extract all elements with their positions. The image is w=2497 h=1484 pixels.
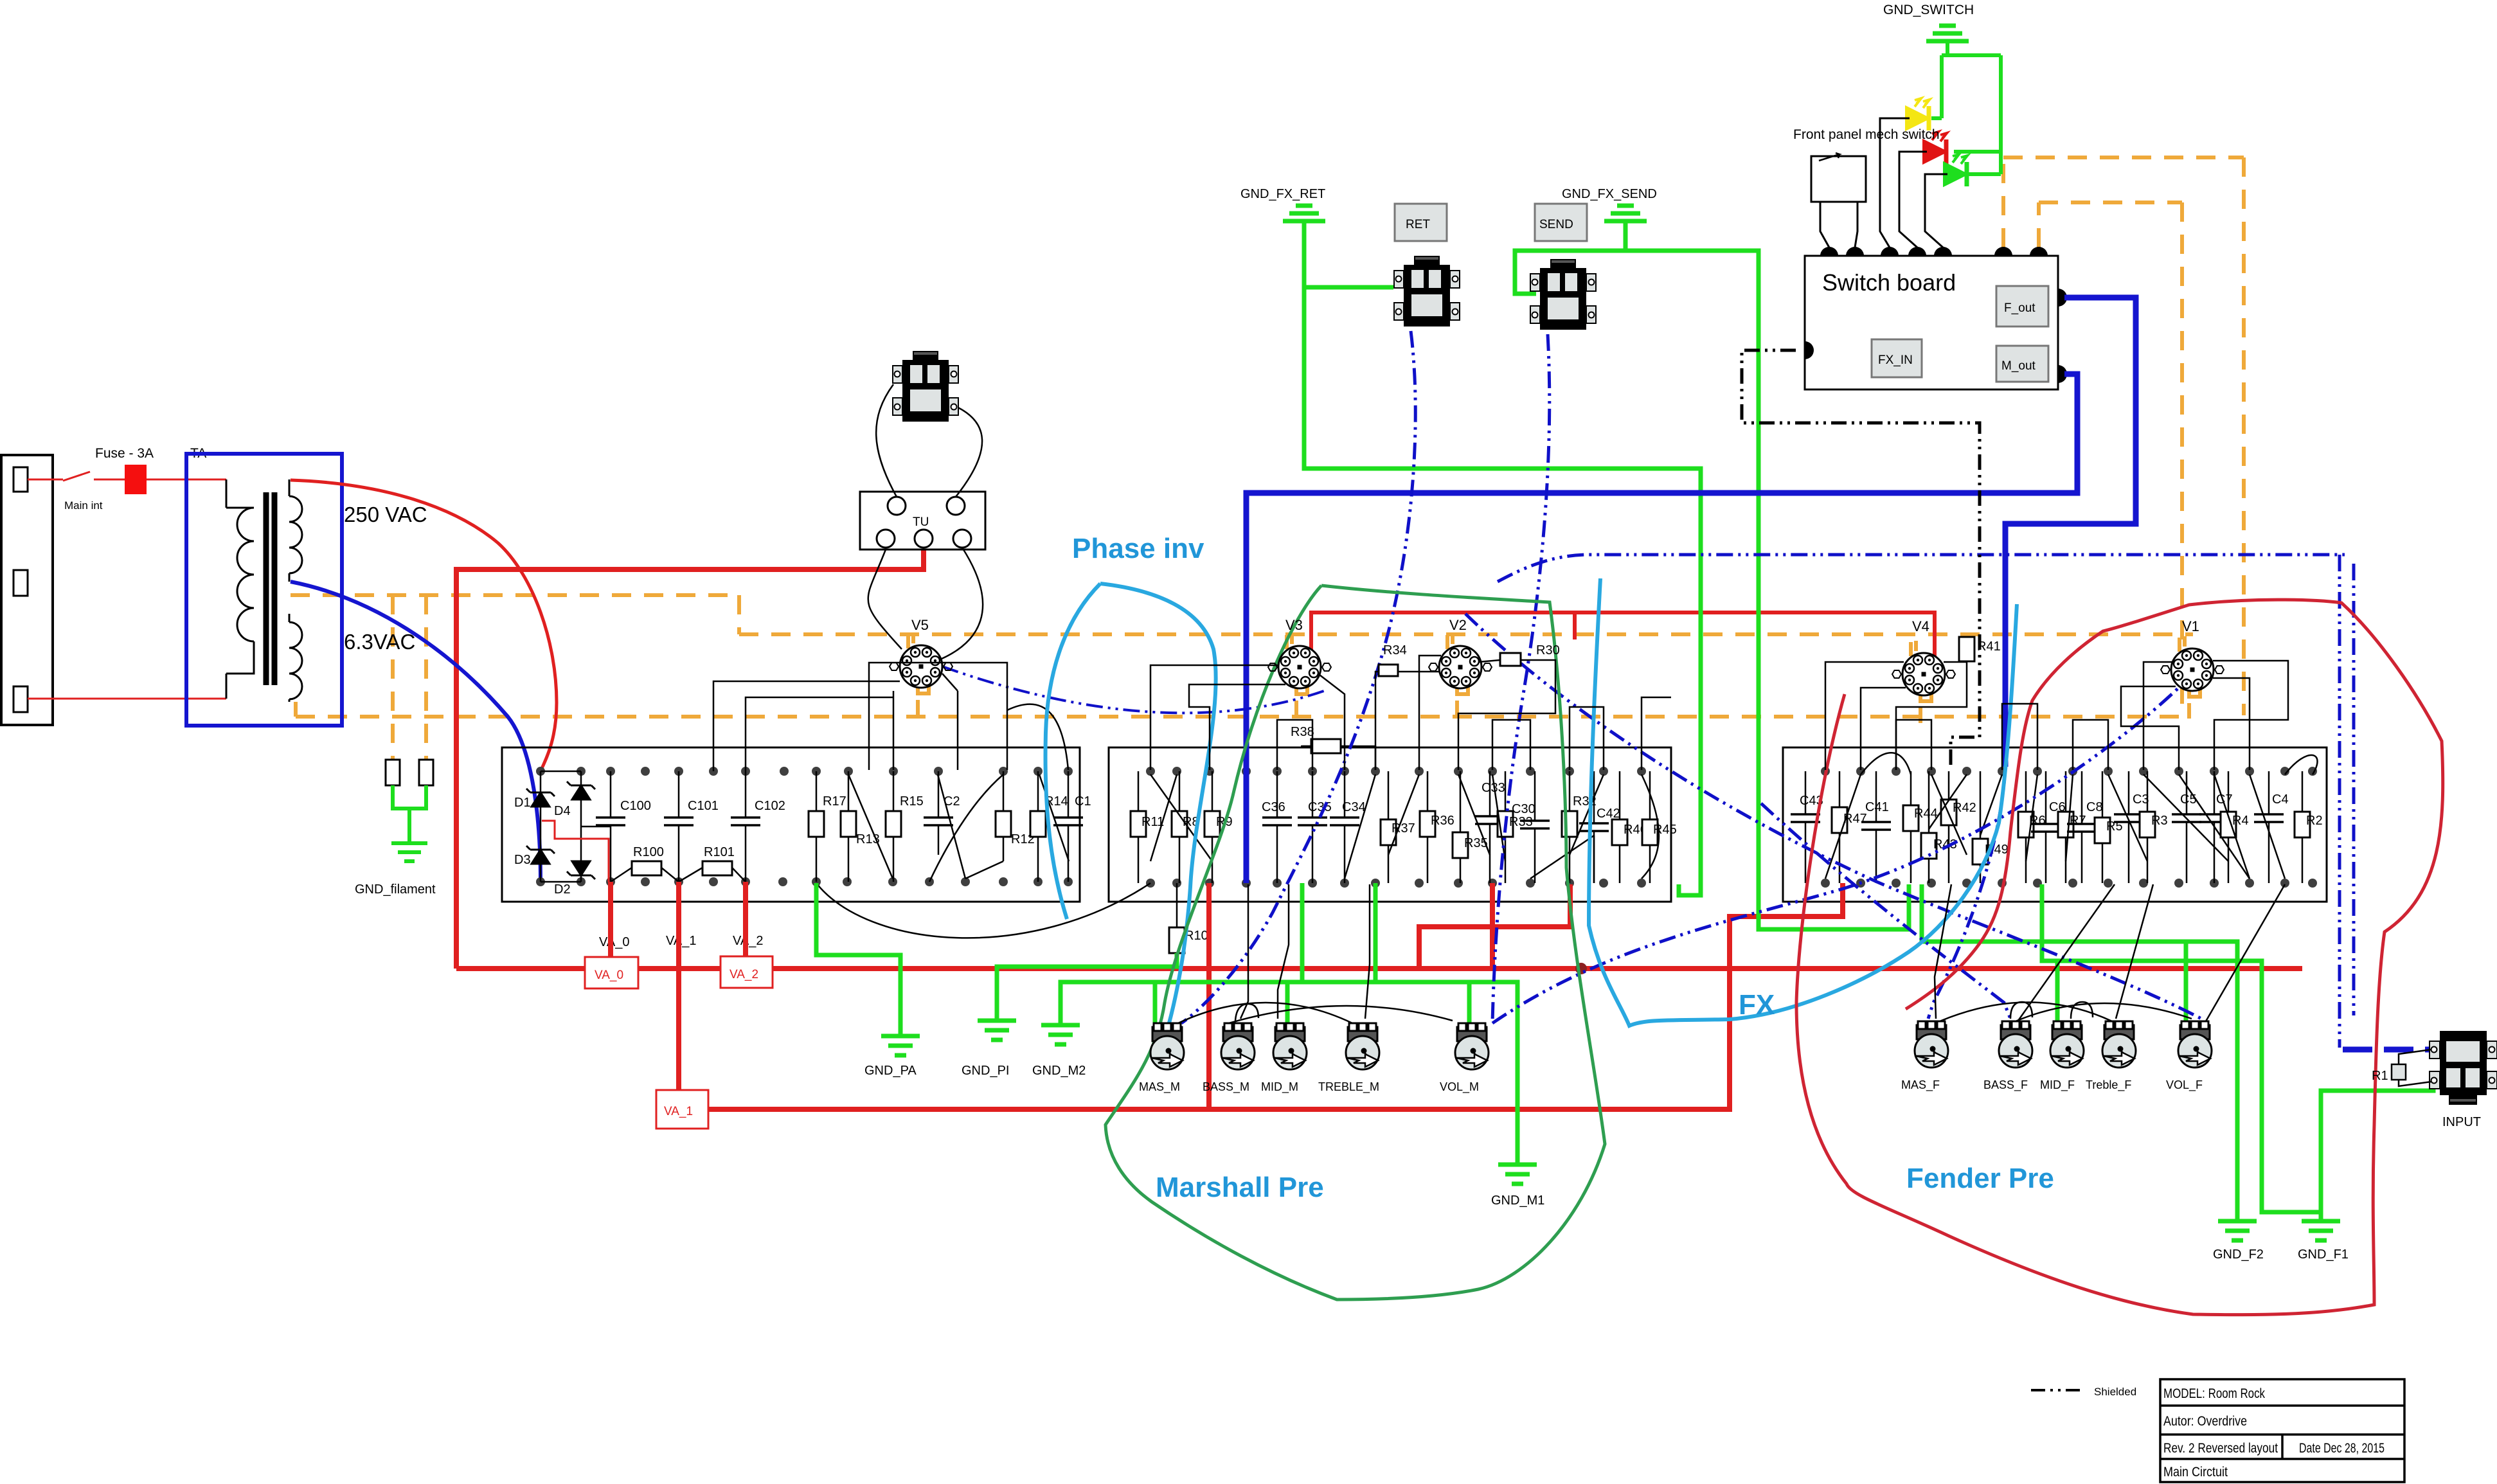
capacitor C3: [2128, 771, 2130, 883]
svg-text:RET: RET: [1406, 218, 1430, 231]
potentiometer BASS_M: [1221, 1023, 1255, 1069]
turret board 2 (Marshall pre): [1109, 747, 1671, 902]
tube V2: [1429, 646, 1492, 688]
IEC mains inlet connector: [1, 455, 53, 725]
svg-text:MID_M: MID_M: [1261, 1080, 1298, 1094]
shielded wire VOL_M to V1: [1492, 672, 2192, 1023]
jack speaker out: [893, 351, 958, 422]
svg-text:R1: R1: [2372, 1069, 2388, 1083]
wire V2 loom + R34: [1375, 656, 1555, 770]
diode D1: [526, 789, 555, 807]
wire TU to speaker jack: [876, 384, 983, 659]
svg-text:GND_F2: GND_F2: [2213, 1247, 2264, 1262]
wire V5 loom: [868, 550, 1007, 770]
fuse holders on heater line: [386, 760, 433, 785]
svg-text:MAS_M: MAS_M: [1139, 1080, 1180, 1094]
wire pot link arcs Marshall: [1178, 884, 1453, 1023]
wire board2 diagonal links: [1150, 774, 1659, 883]
svg-text:C5: C5: [2180, 792, 2197, 807]
svg-text:D4: D4: [554, 804, 571, 818]
svg-text:Shielded: Shielded: [2094, 1386, 2136, 1398]
front panel mech switch: [1811, 153, 1866, 247]
svg-text:C101: C101: [688, 799, 719, 813]
wire bridge rectifier links: [541, 771, 611, 882]
region outline Phase inv (cyan): [1046, 584, 1216, 1048]
svg-text:R45: R45: [1653, 823, 1677, 837]
wire blue input jack link: [2343, 1047, 2434, 1053]
ground GND_filament: [391, 785, 427, 861]
svg-text:R101: R101: [704, 845, 735, 859]
wire 6.3VAC blue to board: [291, 582, 541, 881]
switch board pads: [1805, 247, 2067, 383]
svg-text:C100: C100: [620, 799, 651, 813]
svg-text:Date Dec 28, 2015: Date Dec 28, 2015: [2299, 1441, 2385, 1456]
wire blue M_out: [1246, 374, 2077, 883]
svg-text:R42: R42: [1953, 801, 1976, 815]
svg-text:R4: R4: [2232, 814, 2249, 828]
capacitor C101: [678, 771, 680, 882]
turret board 1 (PSU / PA): [502, 747, 1080, 902]
wire V3 loom: [1150, 665, 1345, 770]
resistor R34: [1379, 665, 1398, 676]
turret board 3 (Fender pre): [1783, 747, 2327, 902]
resistor R9: [1212, 771, 1213, 883]
resistor R46: [1619, 771, 1621, 883]
tube V3: [1268, 646, 1331, 688]
wire green FX send shield: [1515, 221, 1909, 929]
svg-text:R33: R33: [1509, 815, 1533, 829]
svg-text:R37: R37: [1392, 821, 1415, 836]
tube V4: [1892, 653, 1955, 695]
wire green FX return shield: [1304, 238, 1701, 895]
svg-text:VA_0: VA_0: [599, 935, 629, 949]
svg-text:R38: R38: [1291, 725, 1314, 739]
ground GND_FX_RET: [1302, 221, 1307, 287]
resistor R7: [2065, 771, 2067, 883]
svg-text:6.3VAC: 6.3VAC: [344, 630, 415, 654]
resistor R2: [2302, 771, 2304, 883]
wire red rectifier jumper: [542, 821, 609, 882]
region outline Fender Pre (red): [1796, 600, 2443, 1314]
svg-text:INPUT: INPUT: [2442, 1115, 2481, 1129]
potentiometer Treble_F: [2102, 1021, 2136, 1068]
svg-text:C3: C3: [2133, 792, 2149, 807]
ground GND_M2: [1041, 1025, 1080, 1044]
ground GND_PA: [881, 1036, 920, 1055]
svg-text:Treble_F: Treble_F: [2086, 1078, 2131, 1092]
svg-text:M_out: M_out: [2001, 359, 2036, 373]
resistor R30: [1500, 653, 1521, 666]
resistor R32: [1569, 771, 1571, 883]
potentiometer MID_M: [1273, 1023, 1307, 1069]
svg-text:TREBLE_M: TREBLE_M: [1318, 1080, 1379, 1094]
resistor R14: [1037, 771, 1039, 882]
resistor R101: [679, 868, 746, 882]
jack RET jack: [1394, 256, 1460, 326]
resistor R13: [848, 771, 850, 882]
resistor R35: [1460, 771, 1462, 883]
potentiometer VOL_M: [1455, 1023, 1489, 1069]
svg-text:C35: C35: [1308, 800, 1332, 814]
capacitor C102: [745, 771, 747, 882]
capacitor C42: [1593, 771, 1595, 883]
resistor R42: [1948, 771, 1950, 883]
resistor R33: [1505, 771, 1507, 883]
ground GND_F1: [2302, 1221, 2340, 1240]
wire green input jack ground: [2321, 1081, 2433, 1212]
svg-text:V4: V4: [1912, 618, 1929, 634]
wire green GND_PI from R10: [997, 953, 1177, 1021]
svg-text:MAS_F: MAS_F: [1901, 1078, 1940, 1092]
wire mains live (red) with Main int switch: [28, 472, 226, 699]
resistor R15: [893, 771, 895, 882]
svg-text:GND_FX_SEND: GND_FX_SEND: [1562, 187, 1657, 201]
svg-text:VOL_F: VOL_F: [2166, 1078, 2203, 1092]
legend shielded: [2031, 1389, 2084, 1391]
wire board1 diagonal links: [848, 774, 1069, 882]
node VA_2 box: [720, 956, 773, 988]
resistor R36: [1427, 771, 1429, 883]
shielded wire SEND to VOL_M: [1492, 334, 1550, 1023]
resistor R3: [2147, 771, 2149, 883]
svg-text:V3: V3: [1285, 617, 1303, 633]
svg-text:FX: FX: [1739, 989, 1775, 1021]
region outline Marshall Pre (dark green): [1105, 586, 1605, 1300]
capacitor C1: [1068, 771, 1070, 882]
capacitor C36: [1276, 771, 1278, 883]
svg-text:C36: C36: [1262, 800, 1285, 814]
wire V4 loom + R41: [1825, 661, 1967, 770]
svg-text:C102: C102: [755, 799, 785, 813]
svg-text:FX_IN: FX_IN: [1878, 353, 1913, 367]
svg-text:R36: R36: [1431, 814, 1454, 828]
svg-text:R34: R34: [1383, 643, 1407, 657]
ground GND_FX_SEND: [1604, 206, 1647, 221]
capacitor C4: [2268, 771, 2270, 883]
svg-text:R100: R100: [633, 845, 664, 859]
shielded wire RET to MAS_M: [1181, 331, 1415, 1023]
svg-text:C1: C1: [1075, 794, 1091, 809]
wire arc from C1 to V5 loom: [1007, 704, 1068, 770]
svg-text:VA_1: VA_1: [664, 1105, 693, 1118]
potentiometer MAS_F: [1915, 1021, 1948, 1068]
svg-text:TU: TU: [913, 515, 929, 529]
svg-text:R41: R41: [1977, 639, 2001, 654]
capacitor C100: [610, 771, 612, 882]
svg-text:R2: R2: [2306, 814, 2323, 828]
svg-text:Marshall Pre: Marshall Pre: [1156, 1172, 1324, 1203]
svg-text:VA_2: VA_2: [729, 968, 758, 981]
svg-text:GND_FX_RET: GND_FX_RET: [1240, 187, 1325, 201]
ground GND_M1: [1498, 1165, 1537, 1184]
node VA_1 box: [656, 1090, 708, 1129]
ground GND_SWITCH: [1926, 26, 1969, 41]
port M_out: [1996, 346, 2048, 382]
svg-text:F_out: F_out: [2004, 301, 2036, 315]
diode D3: [526, 846, 555, 864]
svg-text:R17: R17: [823, 794, 846, 809]
svg-text:V5: V5: [911, 617, 929, 633]
resistor R12: [1003, 771, 1005, 861]
label box SEND: [1535, 204, 1587, 241]
svg-text:BASS_F: BASS_F: [1983, 1078, 2028, 1092]
resistor R10: [1176, 883, 1178, 927]
tube V1: [2161, 648, 2224, 691]
svg-text:VA_0: VA_0: [595, 969, 623, 982]
svg-text:BASS_M: BASS_M: [1203, 1080, 1249, 1094]
resistor R49: [1980, 771, 1982, 883]
capacitor C34: [1344, 771, 1346, 883]
wire loom stubs above boards: [713, 681, 2108, 771]
resistor R17: [816, 771, 818, 882]
svg-text:GND_filament: GND_filament: [355, 882, 436, 897]
svg-text:GND_SWITCH: GND_SWITCH: [1883, 3, 1974, 17]
svg-text:Main Circtuit: Main Circtuit: [2163, 1465, 2228, 1480]
potentiometer VOL_F: [2178, 1021, 2212, 1068]
capacitor C35: [1312, 771, 1314, 883]
wire red VA_0 / VA_2 rail: [456, 883, 2302, 1109]
svg-text:C30: C30: [1512, 802, 1535, 816]
heater stubs at tube sockets: [908, 633, 2200, 723]
jack SEND jack: [1530, 259, 1596, 330]
jack INPUT: [2430, 1031, 2497, 1105]
resistor R100: [611, 868, 679, 882]
capacitor C6: [2045, 771, 2047, 883]
svg-text:V1: V1: [2182, 618, 2199, 634]
resistor R38: [1277, 746, 1356, 747]
resistor R37: [1388, 771, 1390, 883]
switch board: [1805, 256, 2058, 389]
svg-text:Phase inv: Phase inv: [1072, 533, 1204, 564]
diode D2: [567, 861, 595, 879]
wire green Marshall ground rail: [1061, 883, 1517, 1165]
port F_out: [1996, 286, 2048, 326]
title block: [2160, 1379, 2404, 1482]
shielded wire to BASS_F: [1761, 803, 2010, 1019]
svg-text:D3: D3: [514, 853, 531, 867]
resistor R41: [1959, 637, 1974, 661]
svg-text:MODEL: Room Rock: MODEL: Room Rock: [2163, 1386, 2265, 1401]
capacitor C41: [1875, 771, 1877, 883]
wire red VA stubs from board1: [611, 882, 746, 1090]
potentiometer TREBLE_M: [1346, 1023, 1379, 1069]
svg-text:Fuse - 3A: Fuse - 3A: [95, 446, 154, 461]
svg-text:C34: C34: [1342, 800, 1366, 814]
port FX_IN: [1872, 339, 1922, 377]
potentiometer MID_F: [2050, 1021, 2084, 1068]
svg-text:D1: D1: [514, 796, 531, 810]
wire blue F_out: [2005, 298, 2136, 767]
svg-text:SEND: SEND: [1539, 218, 1573, 231]
fuse F1 3A: [125, 465, 147, 494]
ground GND_PI: [978, 1021, 1016, 1040]
wire green Fender ground rails: [1922, 884, 2321, 1221]
resistor R6: [2025, 771, 2027, 883]
wire board3 diagonal and curved links: [1825, 753, 2318, 879]
capacitor C33: [1489, 771, 1491, 883]
svg-text:GND_M1: GND_M1: [1491, 1193, 1544, 1208]
svg-text:MID_F: MID_F: [2040, 1078, 2075, 1092]
resistor R45: [1649, 771, 1651, 883]
svg-text:GND_M2: GND_M2: [1032, 1064, 1086, 1078]
resistor R43: [1928, 771, 1930, 883]
shielded wire V2 to VOL_F: [1465, 614, 2201, 1019]
svg-text:VOL_M: VOL_M: [1440, 1080, 1479, 1094]
svg-text:R44: R44: [1914, 807, 1938, 821]
resistor R47: [1839, 771, 1841, 883]
label box RET: [1395, 204, 1447, 241]
potentiometer MAS_M: [1150, 1023, 1184, 1069]
svg-text:GND_PI: GND_PI: [962, 1064, 1009, 1078]
svg-text:C41: C41: [1865, 800, 1889, 814]
svg-text:C4: C4: [2272, 792, 2289, 807]
svg-text:Autor: Overdrive: Autor: Overdrive: [2163, 1414, 2247, 1429]
LED red: [1924, 132, 1947, 164]
resistor R1: [2392, 1064, 2406, 1080]
svg-text:R30: R30: [1536, 643, 1560, 657]
diode D4: [567, 782, 595, 800]
svg-text:GND_F1: GND_F1: [2298, 1247, 2349, 1262]
ground GND_F2: [2218, 1221, 2257, 1240]
wire LED leads: [1880, 118, 1947, 247]
capacitor C43: [1805, 771, 1807, 883]
svg-text:250 VAC: 250 VAC: [344, 503, 427, 526]
terminal strip TU: [860, 492, 985, 550]
capacitor C2: [938, 771, 940, 855]
svg-text:GND_PA: GND_PA: [864, 1064, 917, 1078]
wire pot link arcs Fender: [1935, 884, 2285, 1021]
svg-text:Rev. 2 Reversed layout: Rev. 2 Reversed layout: [2163, 1441, 2278, 1456]
svg-text:Fender Pre: Fender Pre: [1906, 1163, 2054, 1194]
wire 250VAC red to rectifier board: [291, 480, 557, 771]
capacitor C7: [2214, 771, 2215, 883]
heater 6.3VAC dashed wire network: [291, 157, 2244, 760]
resistor R8: [1179, 771, 1181, 883]
svg-text:C8: C8: [2086, 800, 2103, 814]
wire green GND_PA: [816, 883, 900, 1036]
svg-text:Main int: Main int: [64, 499, 103, 512]
LED green: [1944, 154, 1967, 186]
shielded wire V5 curve: [942, 666, 1324, 713]
svg-text:R7: R7: [2070, 814, 2086, 828]
shielded wire long run to input: [1498, 555, 2345, 582]
svg-text:D2: D2: [554, 882, 571, 897]
svg-text:Front panel mech switch: Front panel mech switch: [1793, 127, 1940, 142]
tube V5: [890, 645, 953, 688]
resistor R5: [2102, 771, 2104, 883]
resistor R44: [1910, 771, 1912, 883]
LED yellow: [1906, 98, 1929, 130]
wire V1 loom: [2121, 661, 2288, 770]
region outline FX (cyan): [1589, 578, 2017, 1026]
capacitor C8: [2081, 771, 2083, 883]
resistor R11: [1138, 771, 1140, 883]
resistor R4: [2228, 771, 2230, 883]
node VA_0 box: [585, 957, 638, 988]
shielded wire F_out to MAS_F: [1928, 767, 2005, 1019]
shielded wire black FX_IN: [1742, 350, 1980, 769]
capacitor C30: [1534, 771, 1536, 883]
svg-text:Switch board: Switch board: [1822, 269, 1956, 296]
wire red plate supply line V3/V2/V4: [1311, 612, 1935, 665]
capacitor C5: [2186, 771, 2188, 883]
svg-text:R3: R3: [2151, 814, 2168, 828]
transformer TA: [186, 454, 342, 726]
svg-text:V2: V2: [1449, 617, 1467, 633]
svg-text:R15: R15: [900, 794, 924, 809]
wire NFB arc under board1: [816, 883, 1150, 938]
wire R1 leads: [2399, 1050, 2431, 1086]
wire red VA_0 rail elbow to TU: [456, 549, 924, 969]
potentiometer BASS_F: [1999, 1021, 2032, 1068]
wire green GND_SWITCH net: [1931, 41, 2001, 174]
board turret junction dots: [536, 767, 2317, 888]
